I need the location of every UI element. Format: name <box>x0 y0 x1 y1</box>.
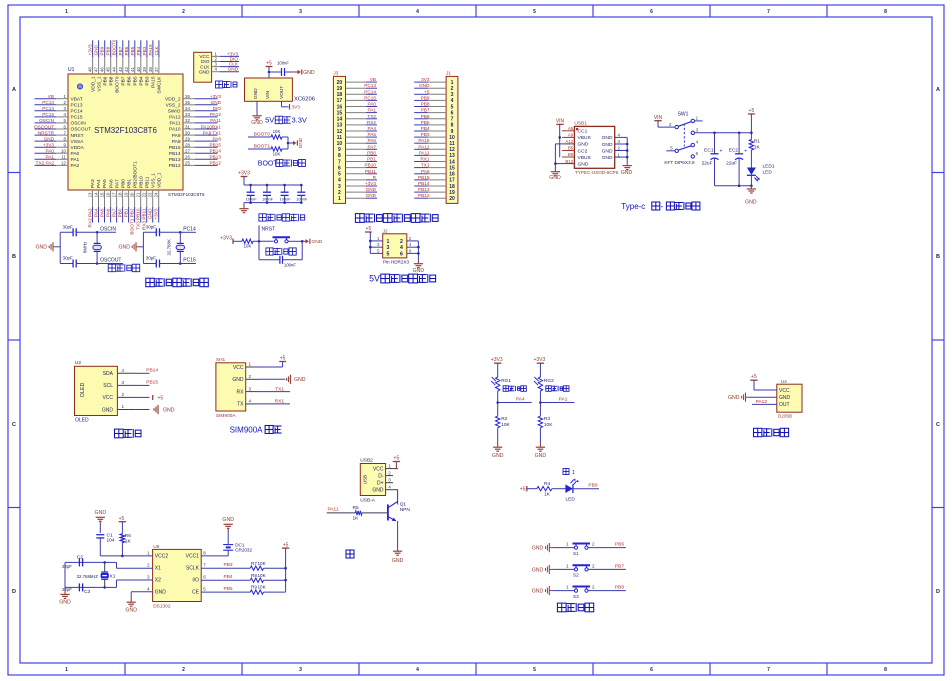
svg-text:D: D <box>936 589 940 595</box>
svg-text:9: 9 <box>451 129 454 135</box>
svg-text:PA4: PA4 <box>94 208 99 217</box>
svg-text:DS1302: DS1302 <box>153 604 171 610</box>
svg-text:GND: GND <box>163 407 175 413</box>
svg-text:PA8: PA8 <box>172 139 181 145</box>
svg-text:+5: +5 <box>283 542 289 548</box>
svg-text:9: 9 <box>338 147 341 153</box>
svg-text:24: 24 <box>154 192 159 197</box>
svg-text:18: 18 <box>449 184 455 190</box>
svg-text:+5: +5 <box>366 226 372 232</box>
svg-text:GND: GND <box>253 88 259 99</box>
svg-text:5V: 5V <box>369 274 380 284</box>
svg-text:C2: C2 <box>77 554 83 560</box>
svg-text:35: 35 <box>185 100 190 105</box>
svg-text:19: 19 <box>124 192 129 197</box>
svg-text:2: 2 <box>249 374 252 379</box>
svg-text:PB13: PB13 <box>169 157 181 163</box>
svg-text:PB12: PB12 <box>169 163 181 169</box>
svg-text:D: D <box>12 589 16 595</box>
svg-text:PC13: PC13 <box>71 103 83 109</box>
svg-text:VSS_1: VSS_1 <box>150 173 156 188</box>
svg-text:PA6: PA6 <box>367 138 376 143</box>
svg-text:19: 19 <box>337 86 343 92</box>
svg-text:VCC1: VCC1 <box>186 554 200 560</box>
svg-text:16: 16 <box>337 104 343 110</box>
svg-text:PB5: PB5 <box>133 76 139 85</box>
svg-text:PB6: PB6 <box>615 542 624 548</box>
svg-text:VBAT: VBAT <box>71 96 83 102</box>
svg-text:PA12: PA12 <box>210 112 222 117</box>
svg-text:GND: GND <box>492 453 504 459</box>
svg-text:22: 22 <box>142 192 147 197</box>
svg-text:R1: R1 <box>754 138 760 144</box>
svg-text:S1: S1 <box>573 551 579 556</box>
svg-text:3V3: 3V3 <box>292 105 301 110</box>
svg-text:GND: GND <box>602 135 613 141</box>
svg-text:7: 7 <box>451 117 454 123</box>
svg-text:17: 17 <box>449 178 455 184</box>
svg-text:43: 43 <box>118 67 123 72</box>
svg-text:GND: GND <box>102 407 114 413</box>
svg-text:GND: GND <box>578 142 589 148</box>
svg-text:SIM900A: SIM900A <box>216 413 237 419</box>
svg-text:PC14: PC14 <box>183 226 196 232</box>
svg-text:22uF: 22uF <box>726 161 737 167</box>
svg-text:PA6: PA6 <box>106 208 111 217</box>
svg-text:PB10: PB10 <box>138 176 144 188</box>
svg-text:15: 15 <box>100 192 105 197</box>
svg-text:TYPEC-USOD-8CP6: TYPEC-USOD-8CP6 <box>575 170 619 175</box>
svg-text:GND: GND <box>621 170 633 176</box>
svg-text:5: 5 <box>451 104 454 110</box>
svg-text:41: 41 <box>130 67 135 72</box>
svg-text:PB12: PB12 <box>210 161 222 166</box>
svg-text:PB4: PB4 <box>136 46 141 55</box>
svg-text:100nF: 100nF <box>296 196 308 201</box>
svg-text:LED: LED <box>566 496 576 502</box>
svg-text:GND: GND <box>211 100 222 105</box>
svg-text:34: 34 <box>185 106 190 111</box>
svg-text:10: 10 <box>337 141 343 147</box>
svg-text:+3V3: +3V3 <box>43 143 54 148</box>
svg-text:23: 23 <box>148 192 153 197</box>
svg-text:GND: GND <box>148 208 153 219</box>
svg-text:+3V3: +3V3 <box>88 44 93 55</box>
svg-text:RX: RX <box>237 389 245 395</box>
svg-text:2: 2 <box>122 392 125 397</box>
svg-text:SWCLK: SWCLK <box>157 76 163 94</box>
svg-text:VBUS: VBUS <box>578 135 592 141</box>
svg-text:PB7: PB7 <box>121 76 127 85</box>
svg-text:A9: A9 <box>568 133 574 138</box>
svg-text:32.768K: 32.768K <box>167 239 172 255</box>
svg-text:GND: GND <box>602 155 613 161</box>
svg-text:PA2: PA2 <box>71 163 80 169</box>
svg-text:PB6: PB6 <box>124 46 129 55</box>
svg-text:PB8: PB8 <box>615 585 624 591</box>
svg-text:10K: 10K <box>258 561 267 566</box>
svg-text:4: 4 <box>388 485 391 490</box>
svg-text:32.768kHZ: 32.768kHZ <box>77 574 99 579</box>
svg-text:10K: 10K <box>544 422 553 428</box>
svg-text:SW1: SW1 <box>678 112 689 118</box>
svg-text:+5: +5 <box>119 516 125 522</box>
svg-text:PB9: PB9 <box>421 95 430 100</box>
svg-text:2: 2 <box>592 542 595 547</box>
svg-text:8: 8 <box>338 153 341 159</box>
svg-text:+3V3: +3V3 <box>238 171 250 177</box>
svg-text:8: 8 <box>451 123 454 129</box>
svg-text:4: 4 <box>416 667 419 673</box>
svg-text:14: 14 <box>449 159 455 165</box>
svg-text:+3V3: +3V3 <box>533 357 545 363</box>
svg-text:25: 25 <box>185 161 190 166</box>
svg-text:3: 3 <box>299 9 302 15</box>
svg-text:+5: +5 <box>749 108 755 114</box>
svg-text:U2: U2 <box>75 360 81 366</box>
svg-text:10K: 10K <box>258 585 267 590</box>
svg-text:29: 29 <box>185 136 190 141</box>
svg-text:PC15: PC15 <box>183 258 196 264</box>
svg-text:5: 5 <box>533 9 536 15</box>
svg-text:PB0: PB0 <box>367 150 376 155</box>
svg-text:OSCIN: OSCIN <box>100 226 116 232</box>
svg-text:Type-c: Type-c <box>621 202 645 211</box>
svg-text:10: 10 <box>449 135 455 141</box>
svg-text:PB9: PB9 <box>102 76 108 85</box>
svg-text:PB15: PB15 <box>418 175 430 180</box>
svg-text:12: 12 <box>337 129 343 135</box>
svg-text:3: 3 <box>147 575 150 580</box>
svg-text:RX2 PA3: RX2 PA3 <box>88 208 93 227</box>
svg-text:GND: GND <box>155 590 167 596</box>
svg-text:PA4: PA4 <box>367 126 376 131</box>
svg-text:45: 45 <box>106 67 111 72</box>
svg-text:VCC: VCC <box>102 395 113 401</box>
svg-text:CLK: CLK <box>154 46 159 56</box>
svg-text:RG1: RG1 <box>501 378 511 384</box>
svg-text:PB3: PB3 <box>421 132 430 137</box>
svg-text:1: 1 <box>566 563 569 568</box>
svg-text:6: 6 <box>203 575 206 580</box>
svg-text:GND: GND <box>298 137 303 148</box>
svg-text:10K: 10K <box>244 244 252 249</box>
svg-text:PB12: PB12 <box>418 193 430 198</box>
svg-text:1: 1 <box>338 196 341 202</box>
svg-text:100nF: 100nF <box>246 196 258 201</box>
svg-text:RX2: RX2 <box>367 120 377 125</box>
svg-text:B: B <box>12 254 16 260</box>
svg-text:OSCOUT: OSCOUT <box>100 258 121 264</box>
svg-text:7: 7 <box>338 159 341 165</box>
svg-text:B5: B5 <box>568 146 574 151</box>
svg-text:PB7: PB7 <box>421 108 430 113</box>
svg-text:D-: D- <box>378 473 384 479</box>
svg-text:1: 1 <box>147 551 150 556</box>
svg-text:20: 20 <box>337 80 343 86</box>
svg-text:GND: GND <box>419 83 430 88</box>
svg-text:PB8: PB8 <box>421 102 430 107</box>
svg-text:S2: S2 <box>573 573 579 578</box>
svg-text:20: 20 <box>449 196 455 202</box>
svg-text:PB5: PB5 <box>130 46 135 55</box>
svg-text:GND: GND <box>728 395 740 401</box>
svg-text:C: C <box>12 422 16 428</box>
svg-text:31: 31 <box>185 124 190 129</box>
svg-text:PC14: PC14 <box>364 89 376 94</box>
svg-text:PB8: PB8 <box>106 46 111 55</box>
svg-text:PB14: PB14 <box>210 149 222 154</box>
svg-text:2: 2 <box>388 471 391 476</box>
svg-text:32: 32 <box>185 118 190 123</box>
svg-text:PB15: PB15 <box>169 145 181 151</box>
svg-text:7: 7 <box>767 9 770 15</box>
svg-text:46: 46 <box>100 67 105 72</box>
svg-text:1K: 1K <box>353 516 360 522</box>
svg-text:1: 1 <box>566 542 569 547</box>
svg-text:GND: GND <box>94 44 99 55</box>
svg-text:42: 42 <box>124 67 129 72</box>
svg-text:1K: 1K <box>754 144 761 150</box>
svg-text:GND: GND <box>532 567 544 573</box>
svg-text:10K: 10K <box>273 129 281 134</box>
svg-text:GND: GND <box>35 245 47 251</box>
svg-text:PB1: PB1 <box>126 179 132 188</box>
svg-text:PC15: PC15 <box>71 115 83 121</box>
svg-text:10K: 10K <box>258 573 267 578</box>
svg-text:USB: USB <box>363 475 368 484</box>
svg-text:18: 18 <box>118 192 123 197</box>
svg-text:16: 16 <box>106 192 111 197</box>
svg-text:PA15: PA15 <box>151 76 157 88</box>
svg-text:PB15: PB15 <box>146 380 158 386</box>
svg-text:KFT DIP6X3.8: KFT DIP6X3.8 <box>664 160 695 165</box>
svg-text:22pF: 22pF <box>62 587 72 592</box>
svg-text:PA5: PA5 <box>102 179 108 188</box>
svg-text:6: 6 <box>451 110 454 116</box>
svg-text:104: 104 <box>107 538 115 544</box>
svg-text:EC1: EC1 <box>704 148 714 154</box>
svg-text:PA10RX1: PA10RX1 <box>201 124 222 129</box>
svg-text:XH1: XH1 <box>216 357 226 363</box>
svg-text:BOOT0: BOOT0 <box>114 76 120 93</box>
svg-text:20: 20 <box>130 192 135 197</box>
svg-text:+3V3: +3V3 <box>491 357 503 363</box>
svg-text:PB7: PB7 <box>118 46 123 55</box>
svg-text:PB4: PB4 <box>224 574 233 580</box>
svg-text:3: 3 <box>451 92 454 98</box>
svg-text:PB11: PB11 <box>365 169 377 174</box>
svg-text:I/O: I/O <box>192 578 199 584</box>
svg-text:100nF: 100nF <box>280 196 292 201</box>
svg-text:PB15: PB15 <box>210 143 222 148</box>
svg-text:R7: R7 <box>251 561 257 566</box>
svg-text:5: 5 <box>338 172 341 178</box>
svg-text:J1: J1 <box>446 70 451 75</box>
svg-text:3.3V: 3.3V <box>292 116 307 125</box>
svg-text:GND: GND <box>745 200 757 206</box>
svg-text:DIO: DIO <box>201 59 210 65</box>
svg-text:1: 1 <box>566 585 569 590</box>
svg-text:CLK: CLK <box>200 64 210 70</box>
svg-text:USB2: USB2 <box>360 458 373 464</box>
svg-text:S3: S3 <box>573 594 579 599</box>
svg-text:PA0: PA0 <box>45 149 54 154</box>
svg-text:PB0: PB0 <box>120 179 126 188</box>
svg-text:VCC2: VCC2 <box>155 554 169 560</box>
svg-text:PB11: PB11 <box>144 176 150 188</box>
svg-text:OSCIN: OSCIN <box>39 118 54 123</box>
svg-text:GND: GND <box>232 377 244 383</box>
svg-text:GND: GND <box>312 239 323 245</box>
svg-text:PB13: PB13 <box>210 155 222 160</box>
svg-text:VSSA: VSSA <box>71 139 85 145</box>
svg-text:14: 14 <box>94 192 99 197</box>
svg-text:PA4: PA4 <box>516 397 525 403</box>
svg-text:100nF: 100nF <box>262 196 274 201</box>
svg-text:PA11: PA11 <box>419 150 430 155</box>
svg-text:PB6: PB6 <box>421 114 430 119</box>
svg-text:GND: GND <box>251 120 263 126</box>
svg-text:PA1: PA1 <box>71 157 80 163</box>
svg-text:PA9: PA9 <box>172 133 181 139</box>
svg-text:30pF: 30pF <box>146 255 156 260</box>
svg-text:GND: GND <box>44 136 55 141</box>
svg-text:6: 6 <box>400 251 403 257</box>
svg-text:U1: U1 <box>68 67 75 73</box>
svg-text:PA4: PA4 <box>96 179 102 188</box>
svg-text:SIM900A: SIM900A <box>230 425 264 434</box>
svg-text:GND: GND <box>294 377 306 383</box>
svg-text:8: 8 <box>203 551 206 556</box>
svg-text:-: - <box>661 202 664 211</box>
svg-text:1: 1 <box>65 667 68 673</box>
svg-text:GND: GND <box>199 69 210 75</box>
svg-text:15: 15 <box>337 110 343 116</box>
svg-text:CC1: CC1 <box>578 129 588 135</box>
svg-text:3: 3 <box>122 380 125 385</box>
svg-text:PA7: PA7 <box>114 179 120 188</box>
svg-text:CR2032: CR2032 <box>235 547 252 552</box>
svg-text:11: 11 <box>449 141 455 147</box>
svg-text:11: 11 <box>61 155 66 160</box>
svg-text:OLED: OLED <box>75 418 89 424</box>
svg-text:2: 2 <box>592 585 595 590</box>
svg-text:100nF: 100nF <box>284 263 296 268</box>
svg-text:1: 1 <box>387 239 390 245</box>
svg-text:PB8: PB8 <box>108 76 114 85</box>
svg-text:22pF: 22pF <box>62 564 72 569</box>
svg-text:1: 1 <box>572 470 575 476</box>
svg-text:VB: VB <box>370 77 376 82</box>
svg-text:GND: GND <box>535 453 547 459</box>
svg-text:PC15: PC15 <box>42 112 54 117</box>
svg-text:PB7: PB7 <box>615 563 624 569</box>
svg-text:B12: B12 <box>565 159 573 164</box>
svg-text:VB: VB <box>48 94 54 99</box>
svg-text:GND: GND <box>532 589 544 595</box>
svg-text:Pin HDR2X3: Pin HDR2X3 <box>383 260 409 265</box>
svg-text:EC2: EC2 <box>729 148 739 154</box>
svg-text:PA1: PA1 <box>559 397 568 403</box>
svg-text:B: B <box>936 254 940 260</box>
svg-text:NRST: NRST <box>71 133 84 139</box>
svg-text:TX2: TX2 <box>367 114 376 119</box>
svg-text:PB9: PB9 <box>100 46 105 55</box>
svg-text:22uF: 22uF <box>702 161 713 167</box>
svg-text:12: 12 <box>449 147 455 153</box>
svg-text:+5: +5 <box>266 61 272 67</box>
svg-text:R8: R8 <box>251 573 257 578</box>
svg-text:1: 1 <box>388 464 391 469</box>
svg-text:GND: GND <box>372 488 384 494</box>
svg-text:U4: U4 <box>781 379 787 385</box>
svg-text:NRST: NRST <box>262 227 276 233</box>
svg-text:U5: U5 <box>153 544 159 550</box>
svg-text:PA10: PA10 <box>169 127 181 133</box>
svg-text:4: 4 <box>451 98 454 104</box>
svg-text:VDD_1: VDD_1 <box>90 76 96 92</box>
svg-text:GND: GND <box>392 558 404 564</box>
svg-text:PA15: PA15 <box>148 44 153 56</box>
svg-text:5: 5 <box>387 251 390 257</box>
svg-text:12: 12 <box>61 161 66 166</box>
svg-text:PC15: PC15 <box>364 95 376 100</box>
svg-text:GND: GND <box>118 245 130 251</box>
svg-text:BOOT1 PB2: BOOT1 PB2 <box>130 208 135 234</box>
svg-text:BOOT1: BOOT1 <box>254 143 271 149</box>
svg-text:2: 2 <box>182 9 185 15</box>
svg-text:USB1: USB1 <box>574 121 587 127</box>
svg-text:C: C <box>936 422 940 428</box>
svg-text:OSCIN: OSCIN <box>71 121 87 127</box>
svg-text:36: 36 <box>185 94 190 99</box>
svg-text:15: 15 <box>449 165 455 171</box>
svg-text:OUT: OUT <box>779 402 790 408</box>
svg-text:BOOT0: BOOT0 <box>112 39 117 55</box>
svg-text:OSCOUT: OSCOUT <box>34 124 54 129</box>
svg-text:44: 44 <box>112 67 117 72</box>
svg-text:13: 13 <box>449 153 455 159</box>
svg-text:14: 14 <box>337 117 343 123</box>
svg-text:RX1: RX1 <box>275 399 285 405</box>
svg-text:PA15: PA15 <box>418 138 430 143</box>
svg-text:GND: GND <box>222 517 234 523</box>
svg-text:NRSTR: NRSTR <box>38 130 55 135</box>
svg-text:+3V3: +3V3 <box>220 236 232 242</box>
svg-text:13: 13 <box>88 192 93 197</box>
svg-text:4: 4 <box>338 178 341 184</box>
svg-text:R3: R3 <box>544 416 550 422</box>
svg-text:PB5: PB5 <box>421 120 430 125</box>
svg-text:10K: 10K <box>501 422 510 428</box>
svg-text:GND: GND <box>578 161 589 167</box>
svg-text:R5: R5 <box>353 505 359 511</box>
svg-text:GND: GND <box>602 142 613 148</box>
svg-text:PB10: PB10 <box>365 163 377 168</box>
svg-text:28: 28 <box>185 143 190 148</box>
svg-text:PA1: PA1 <box>367 108 376 113</box>
svg-text:GND: GND <box>59 600 71 606</box>
svg-text:D205B: D205B <box>778 414 792 419</box>
svg-text:TX: TX <box>237 402 244 408</box>
svg-text:1: 1 <box>122 404 125 409</box>
svg-text:R4: R4 <box>544 481 550 487</box>
svg-text:+5: +5 <box>751 374 757 380</box>
svg-text:2: 2 <box>147 563 150 568</box>
svg-text:OLED: OLED <box>80 383 86 398</box>
svg-text:R9: R9 <box>251 585 257 590</box>
